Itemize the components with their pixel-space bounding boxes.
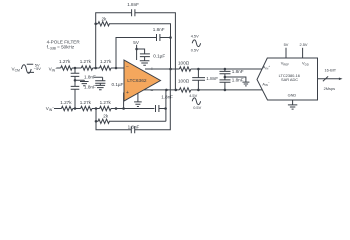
capacitor 0.1uF mid bypass	[94, 77, 106, 85]
svg-text:2k: 2k	[102, 16, 108, 21]
svg-text:VDD: VDD	[302, 61, 309, 67]
resistor R3 1.27k (top)	[100, 66, 111, 70]
wire mid caps to ground	[225, 77, 246, 82]
svg-text:1.8nF: 1.8nF	[232, 78, 244, 83]
wire 16-BIT output arrow	[318, 78, 341, 80]
capacitor C10 1.8nF to ground (top)	[220, 69, 231, 77]
svg-text:VREF: VREF	[281, 61, 290, 67]
svg-text:1.8nF: 1.8nF	[161, 95, 173, 100]
svg-text:1.27k: 1.27k	[59, 59, 71, 64]
wire node A'	[73, 108, 81, 110]
svg-text:GND: GND	[288, 93, 297, 98]
ground mid	[80, 82, 89, 86]
svg-text:0.1µF: 0.1µF	[112, 82, 124, 87]
svg-text:1.8nF: 1.8nF	[206, 76, 218, 81]
wire to ADC AIN-	[191, 89, 262, 91]
svg-text:2k: 2k	[103, 113, 109, 118]
capacitor C11 1.8nF to ground (bottom)	[220, 77, 231, 90]
svg-text:5V: 5V	[133, 40, 140, 45]
ground mid caps	[242, 82, 249, 86]
ground amp V-	[134, 93, 142, 106]
capacitor C6 1.8nF bottom outer	[96, 69, 170, 133]
capacitor C7 1.8nF top outer	[96, 9, 176, 90]
resistor R7 2k (bottom)	[95, 109, 97, 122]
svg-text:4.5V: 4.5V	[191, 34, 199, 39]
ground ADC	[288, 105, 297, 109]
wire node C to amp	[111, 67, 124, 69]
resistor R4 1.27k (bottom)	[61, 106, 72, 110]
wire amp out+ (top)	[145, 68, 179, 70]
svg-text:4.5V: 4.5V	[189, 93, 197, 98]
bus slash	[323, 76, 328, 81]
svg-text:1.8nF: 1.8nF	[128, 124, 140, 129]
pin VDD stub	[302, 48, 304, 58]
wire node A	[72, 67, 81, 69]
svg-text:1.8nF: 1.8nF	[84, 85, 96, 90]
svg-text:2.5V: 2.5V	[300, 42, 308, 47]
svg-text:−: −	[126, 64, 129, 70]
svg-text:1.8nF: 1.8nF	[232, 69, 244, 74]
svg-text:16-BIT: 16-BIT	[325, 68, 337, 73]
svg-text:1.27k: 1.27k	[100, 100, 112, 105]
resistor R10 100ohm (bottom)	[179, 88, 190, 92]
pin VREF stub	[285, 48, 287, 58]
wire vertical inner-bottom to out-	[165, 90, 167, 121]
capacitor C2 1.8nF mid to node A'	[71, 80, 80, 108]
op-amp U1 LTC6362	[124, 60, 161, 101]
wire VIN- lead	[54, 108, 61, 110]
wire to ADC AIN+	[191, 68, 262, 70]
capacitor C5 1.8nF bottom inner (on row)	[156, 105, 166, 112]
svg-text:1.27k: 1.27k	[60, 100, 72, 105]
capacitor C9 1.8nF differential	[192, 69, 205, 90]
wire VIN+ lead	[57, 67, 61, 69]
svg-text:0.5V: 0.5V	[191, 47, 199, 52]
capacitor C8 1.8nF top inner	[116, 34, 171, 68]
wire mid to ground	[75, 80, 84, 81]
wire node B'	[92, 108, 100, 110]
svg-text:1.8nF: 1.8nF	[153, 27, 165, 32]
svg-text:0.1µF: 0.1µF	[153, 53, 165, 58]
resistor R5 1.27k (bottom)	[81, 106, 92, 110]
resistor R2 1.27k (top)	[81, 66, 92, 70]
wire amp out- (bottom)	[144, 89, 180, 91]
svg-text:1.27k: 1.27k	[80, 59, 92, 64]
node VCM source	[12, 62, 42, 73]
capacitor C1 1.8nF node A to mid	[71, 68, 80, 80]
svg-text:+: +	[126, 90, 129, 96]
svg-text:5V: 5V	[284, 42, 289, 47]
node mid junction	[74, 79, 77, 82]
svg-text:LTC6362: LTC6362	[127, 78, 147, 84]
svg-text:2Msps: 2Msps	[324, 86, 336, 91]
wire node B	[93, 67, 100, 69]
resistor R8 2k (top)	[96, 22, 171, 69]
svg-text:0.5V: 0.5V	[193, 105, 201, 110]
resistor R6 1.27k (bottom)	[100, 106, 111, 110]
svg-text:+: +	[151, 67, 154, 73]
pin GND stub	[292, 100, 294, 105]
ADC U2 LTC2380-16 outline	[257, 58, 318, 100]
svg-text:100Ω: 100Ω	[178, 60, 190, 65]
resistor R9 100ohm (top)	[179, 67, 190, 71]
wire amp +in jog	[123, 93, 126, 109]
svg-text:SAR ADC: SAR ADC	[281, 77, 298, 82]
svg-text:100Ω: 100Ω	[178, 79, 190, 84]
svg-text:1.27k: 1.27k	[80, 100, 92, 105]
ground amp bypass	[140, 61, 150, 66]
svg-text:−5V: −5V	[34, 66, 41, 71]
wire node C' to amp jog	[111, 108, 154, 110]
ground 0.1uF mid	[96, 85, 106, 89]
svg-text:1.8nF: 1.8nF	[127, 2, 139, 7]
capacitor 0.1uF amp bypass	[137, 49, 150, 61]
svg-text:1.27k: 1.27k	[100, 59, 112, 64]
resistor R1 1.27k (top)	[61, 66, 72, 70]
